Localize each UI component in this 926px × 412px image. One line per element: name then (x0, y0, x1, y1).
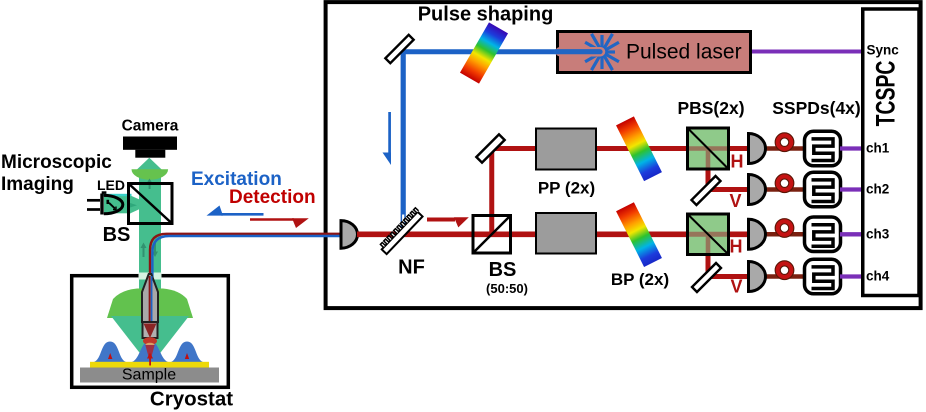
wire purple ch1 (840, 146, 864, 150)
arrows in beam below BS (141, 242, 159, 257)
sample holder (80, 368, 219, 383)
objective tip holder (143, 322, 158, 338)
svg-text:Sample: Sample (122, 367, 176, 384)
green arrow right of LED (127, 202, 137, 209)
arrow detection right (250, 218, 309, 228)
svg-text:(50:50): (50:50) (486, 281, 528, 296)
svg-text:ch3: ch3 (866, 226, 890, 241)
svg-text:Pulse shaping: Pulse shaping (418, 4, 554, 26)
label PBS(2x) (677, 98, 744, 118)
fiber det1-sspd1 (764, 146, 806, 151)
detector D3 (749, 219, 766, 249)
label LED (97, 177, 125, 193)
svg-text:ch1: ch1 (866, 141, 890, 156)
svg-text:Sync: Sync (867, 43, 900, 58)
LED light cone (103, 194, 150, 214)
red beam row1 (492, 146, 750, 151)
SSPD 4 (805, 259, 841, 294)
svg-text:BS: BS (103, 224, 131, 246)
detector D1 (749, 134, 766, 164)
svg-text:Camera: Camera (122, 118, 179, 135)
red beam PBS2 down (706, 236, 711, 279)
focused cone (111, 316, 189, 361)
fiber loop 3 (778, 221, 792, 235)
fiber inside barrel (150, 276, 152, 322)
red arrow after NF (427, 217, 469, 227)
fiber det3-sspd3 (764, 232, 806, 237)
fiber det4-sspd4 (764, 274, 806, 279)
svg-text:Imaging: Imaging (1, 174, 74, 195)
label V row2 (729, 191, 741, 211)
red focus cone (145, 345, 154, 362)
label TCSPC (870, 61, 900, 127)
svg-text:V: V (729, 191, 741, 211)
svg-text:Pulsed laser: Pulsed laser (626, 41, 742, 64)
microscope beam (teal) (137, 158, 162, 298)
wire purple ch4 (840, 274, 864, 278)
svg-text:Detection: Detection (229, 187, 316, 208)
LED icon (87, 191, 123, 214)
red emission blob (143, 337, 157, 347)
PBS cube 1 (688, 128, 729, 169)
label Detection (229, 187, 316, 208)
svg-text:ch2: ch2 (866, 182, 889, 197)
label ch3 (866, 226, 890, 241)
svg-text:NF: NF (398, 257, 425, 279)
TCSPC box (863, 9, 919, 296)
arrow excitation left (207, 206, 264, 216)
svg-text:Microscopic: Microscopic (1, 152, 112, 173)
svg-text:Cryostat: Cryostat (150, 388, 233, 411)
label ch2 (866, 182, 889, 197)
notch filter NF (379, 208, 424, 254)
label BS (microscope) (103, 224, 131, 246)
label Pulsed laser (626, 41, 742, 64)
red beam PBS1 down (706, 150, 711, 192)
tube lens (132, 169, 169, 180)
svg-text:BP (2x): BP (2x) (611, 270, 669, 289)
label Sync (867, 43, 900, 58)
PBS cube 2 (688, 214, 729, 255)
svg-text:V: V (730, 277, 742, 297)
mirror M2 (476, 134, 504, 162)
label ch1 (866, 141, 890, 156)
objective lens dome (107, 289, 193, 319)
svg-text:PBS(2x): PBS(2x) (677, 98, 744, 118)
blue arrow down (383, 112, 392, 165)
label BP (2x) (611, 270, 669, 289)
pulsed laser box (558, 32, 751, 73)
label V row4 (730, 277, 742, 297)
svg-text:SSPDs(4x): SSPDs(4x) (772, 98, 861, 118)
wire purple ch2 (840, 187, 864, 191)
svg-text:H: H (731, 152, 744, 172)
fiber det2-sspd2 (764, 187, 806, 192)
mirror M1 (385, 35, 413, 63)
wire purple sync (752, 50, 864, 54)
detector D2 (749, 175, 766, 205)
objective barrel (142, 274, 158, 322)
svg-text:BS: BS (489, 259, 517, 281)
PP box 2 (536, 213, 596, 254)
laser starburst (585, 34, 619, 70)
label ch4 (866, 269, 890, 284)
fiber from microscope (red) (150, 234, 342, 332)
wire purple ch3 (840, 232, 864, 236)
red beam row4 (703, 274, 750, 279)
SSPD 2 (805, 172, 841, 207)
pulse shaper rainbow (460, 22, 508, 83)
BS 50:50 cube (473, 216, 511, 254)
outer setup box (326, 2, 921, 308)
wire blue excitation horizontal (403, 49, 556, 54)
camera icon (123, 137, 177, 158)
beam light band at cryostat top (139, 273, 162, 280)
label Microscopic Imaging (1, 152, 112, 195)
collimator lens (341, 221, 358, 249)
label H row1 (731, 152, 744, 172)
red beam row2 (703, 187, 750, 192)
fiber loop 1 (778, 135, 792, 149)
svg-text:H: H (730, 237, 743, 257)
tiny red arrows on emitters (108, 353, 189, 366)
label H row3 (730, 237, 743, 257)
SSPD 3 (805, 217, 841, 252)
label Cryostat (150, 388, 233, 411)
label Sample (122, 367, 176, 384)
PP box 1 (536, 129, 596, 170)
BP rainbow 2 (616, 202, 662, 267)
detector D4 (749, 262, 766, 292)
blue emitter bumps (92, 341, 205, 363)
red beam main row (357, 232, 750, 238)
fiber from microscope (blue) (152, 236, 342, 330)
SSPD 1 (805, 131, 841, 166)
fiber loop 4 (778, 263, 792, 277)
red beam BS up (489, 149, 494, 233)
label Pulse shaping (418, 4, 554, 26)
BP rainbow 1 (616, 116, 662, 181)
label Camera (122, 118, 179, 135)
arrow up above BS (147, 179, 153, 190)
label BS (50:50) (486, 259, 528, 296)
V mirror 1 (692, 176, 721, 205)
V mirror 2 (692, 263, 721, 292)
svg-text:PP (2x): PP (2x) (538, 179, 595, 198)
svg-text:TCSPC: TCSPC (870, 61, 900, 127)
label PP (2x) (538, 179, 595, 198)
svg-text:LED: LED (97, 177, 125, 193)
microscope BS cube (129, 184, 173, 224)
cryostat box (72, 276, 229, 388)
label SSPDs(4x) (772, 98, 861, 118)
wire blue excitation vertical (401, 49, 406, 228)
fiber loop 2 (778, 176, 792, 190)
label NF (398, 257, 425, 279)
label Excitation (191, 169, 282, 190)
yellow sample surface (90, 362, 209, 368)
svg-text:ch4: ch4 (866, 269, 890, 284)
